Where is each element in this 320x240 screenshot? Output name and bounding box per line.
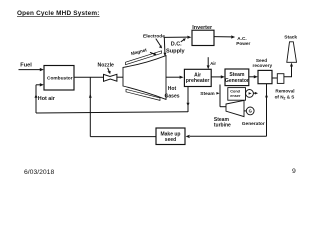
- svg-text:Power: Power: [236, 41, 250, 46]
- condenser box: [228, 88, 246, 101]
- nozzle symbol: [104, 74, 117, 81]
- svg-text:G: G: [249, 109, 252, 114]
- svg-text:Generator: Generator: [225, 78, 249, 84]
- arrowhead nozzle leader: [107, 71, 110, 74]
- arrowhead duct exit into preheater: [180, 76, 184, 79]
- arrowhead pump inner: [249, 92, 252, 94]
- turbine generator shaft: [244, 110, 246, 112]
- svg-text:Nozzle: Nozzle: [98, 63, 115, 69]
- arrowhead into stack: [290, 63, 293, 67]
- removal unit box: [277, 74, 284, 84]
- svg-text:Steam: Steam: [229, 72, 245, 78]
- seed recovery box: [258, 70, 272, 83]
- svg-text:Hot air: Hot air: [38, 96, 56, 102]
- svg-text:Generator: Generator: [242, 121, 265, 127]
- svg-text:6/03/2018: 6/03/2018: [24, 169, 54, 176]
- arrowhead steam generator to seed recovery: [254, 75, 258, 78]
- electrode label leader arrow: [156, 39, 161, 47]
- electrode wire from D.C. supply down to duct: [163, 37, 166, 53]
- magnet top bar: [126, 51, 162, 65]
- arrowhead inverter to ac power: [231, 35, 235, 38]
- arrowhead pump outlet: [255, 92, 258, 95]
- arrowhead steam label: [216, 92, 219, 95]
- arrowhead d.c. label leader: [183, 38, 186, 41]
- svg-text:Stack: Stack: [284, 35, 297, 41]
- svg-text:preheater: preheater: [186, 78, 210, 84]
- svg-text:enser: enser: [230, 94, 241, 98]
- generator circle: [246, 107, 254, 115]
- svg-text:Removal: Removal: [275, 89, 294, 94]
- svg-text:Gases: Gases: [165, 94, 180, 100]
- MHD duct: [123, 56, 166, 100]
- pump outlet wire: [253, 92, 255, 94]
- svg-text:Air: Air: [210, 61, 216, 66]
- d.c. label leader arrow: [181, 40, 184, 42]
- svg-text:Open Cycle MHD System:: Open Cycle MHD System:: [17, 10, 100, 17]
- steam generator box: [225, 69, 249, 86]
- wire air preheater to steam generator: [211, 76, 221, 78]
- svg-text:Hot: Hot: [168, 86, 177, 92]
- wire inverter to AC power: [214, 36, 231, 38]
- svg-text:of N2 & S: of N2 & S: [275, 95, 295, 101]
- steam wire from steam generator down: [219, 85, 221, 107]
- arrowhead preheater to steam generator: [221, 75, 225, 78]
- svg-text:turbine: turbine: [214, 123, 231, 129]
- arrowhead dc to inverter: [187, 36, 191, 39]
- steam turbine: [226, 100, 244, 116]
- arrowhead electrode leader: [159, 45, 162, 48]
- combustor box: [44, 66, 74, 91]
- wire nozzle to duct: [117, 76, 123, 78]
- svg-text:9: 9: [292, 168, 296, 175]
- arrowhead hot air into combustor: [40, 83, 44, 86]
- arrowhead seed return up: [265, 94, 268, 98]
- wire removal unit to stack: [284, 66, 292, 76]
- arrowhead hot air riser up: [35, 94, 38, 98]
- hot air horizontal wire: [36, 112, 188, 113]
- air intake wire: [207, 57, 209, 66]
- svg-text:seed: seed: [165, 137, 176, 143]
- wire combustor to nozzle: [74, 76, 104, 78]
- hot air riser wire: [35, 85, 37, 113]
- wire D.C. supply to inverter: [164, 36, 187, 38]
- fuel inlet wire: [19, 69, 41, 71]
- arrowhead hot air down from preheater: [187, 103, 190, 107]
- svg-text:Electrode: Electrode: [143, 34, 165, 40]
- arrowhead air intake down: [207, 65, 210, 69]
- magnet bottom bar: [126, 89, 160, 100]
- arrowhead magnet leader: [153, 53, 156, 56]
- hot air wire into combustor: [36, 84, 41, 86]
- make up seed box: [156, 128, 185, 145]
- svg-text:Fuel: Fuel: [20, 63, 32, 69]
- svg-text:recovery: recovery: [253, 63, 273, 68]
- svg-text:D.C.: D.C.: [171, 41, 182, 47]
- arrowhead fuel into combustor: [40, 68, 44, 71]
- hot air return wire from preheater down: [187, 87, 189, 113]
- stack chimney: [287, 42, 297, 63]
- svg-text:Supply: Supply: [166, 49, 186, 55]
- seed return horizontal wire: [190, 135, 267, 137]
- inverter box: [192, 30, 214, 45]
- seed return riser from seed recovery: [266, 84, 268, 137]
- nozzle label leader arrow: [108, 68, 110, 73]
- duct exit wire to air preheater: [166, 76, 180, 78]
- svg-text:Steam: Steam: [200, 91, 214, 97]
- air preheater box: [184, 69, 211, 86]
- wire seed recovery to removal unit: [272, 77, 277, 79]
- condensate pump circle: [246, 90, 254, 98]
- wire steam generator to seed recovery: [249, 76, 255, 78]
- svg-text:Combustor: Combustor: [47, 76, 73, 82]
- seed feed wire from make up seed: [90, 136, 156, 138]
- steam wire to turbine inlet: [220, 106, 226, 108]
- svg-text:Inverter: Inverter: [192, 25, 213, 31]
- arrowhead electrode wire down: [164, 53, 167, 57]
- svg-text:Magnet: Magnet: [130, 47, 147, 56]
- seed injection riser: [89, 77, 91, 136]
- arrowhead seed injection riser up: [89, 94, 92, 98]
- arrowhead into make up seed: [186, 135, 190, 138]
- magnet label arrow: [150, 52, 155, 54]
